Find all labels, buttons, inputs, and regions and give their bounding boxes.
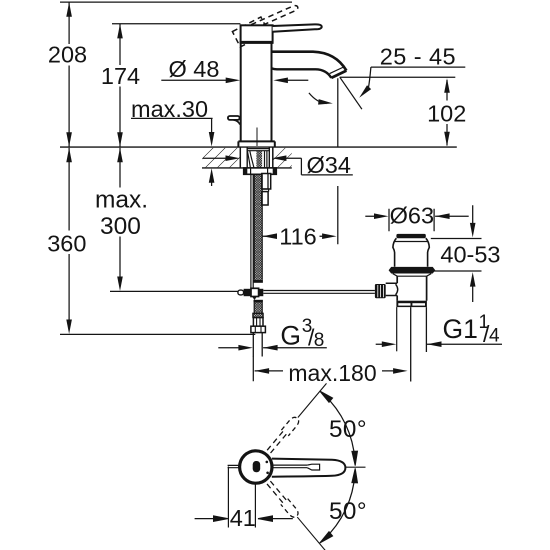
svg-text:4: 4 bbox=[489, 326, 500, 347]
svg-text:208: 208 bbox=[48, 42, 87, 68]
svg-text:Ø63: Ø63 bbox=[390, 203, 434, 229]
svg-text:G1: G1 bbox=[443, 314, 478, 344]
svg-text:Ø34: Ø34 bbox=[307, 152, 351, 178]
svg-text:360: 360 bbox=[47, 231, 86, 257]
svg-text:40-53: 40-53 bbox=[440, 241, 500, 267]
svg-text:50°: 50° bbox=[329, 416, 367, 443]
svg-text:Ø 48: Ø 48 bbox=[169, 56, 220, 82]
svg-text:102: 102 bbox=[427, 101, 466, 127]
svg-text:25 - 45: 25 - 45 bbox=[380, 43, 456, 69]
svg-text:/: / bbox=[308, 325, 315, 351]
svg-text:116: 116 bbox=[279, 223, 316, 249]
svg-text:300: 300 bbox=[100, 213, 141, 240]
svg-text:max.180: max.180 bbox=[288, 360, 376, 386]
svg-text:50°: 50° bbox=[329, 498, 367, 525]
svg-text:174: 174 bbox=[101, 63, 140, 89]
svg-text:41: 41 bbox=[230, 505, 256, 531]
svg-text:/: / bbox=[483, 321, 490, 347]
svg-text:max.: max. bbox=[95, 187, 148, 214]
svg-text:max.30: max.30 bbox=[131, 96, 208, 122]
svg-text:8: 8 bbox=[314, 330, 325, 351]
svg-text:G: G bbox=[280, 321, 301, 351]
